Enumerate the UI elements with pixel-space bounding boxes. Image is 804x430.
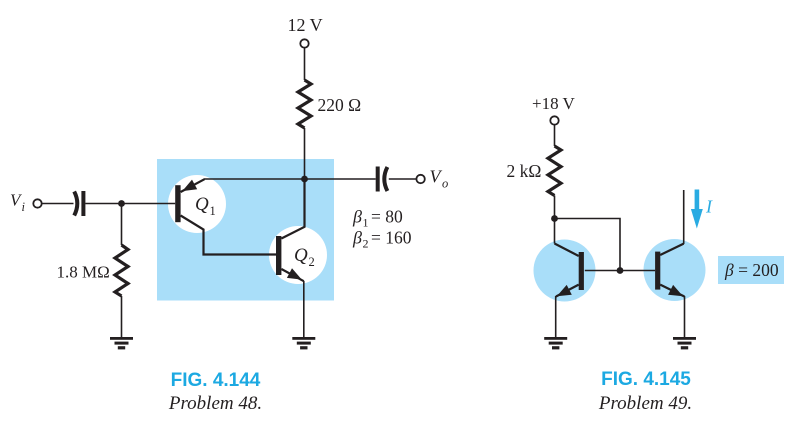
svg-text:2 kΩ: 2 kΩ bbox=[507, 161, 542, 181]
svg-text:Problem 48.: Problem 48. bbox=[168, 393, 262, 414]
svg-text:1: 1 bbox=[210, 204, 216, 218]
svg-text:β = 200: β = 200 bbox=[724, 260, 779, 280]
svg-text:1.8 MΩ: 1.8 MΩ bbox=[57, 263, 110, 282]
svg-text:o: o bbox=[442, 177, 448, 191]
svg-text:2: 2 bbox=[309, 255, 315, 269]
svg-text:= 80: = 80 bbox=[371, 207, 403, 227]
svg-text:β: β bbox=[352, 207, 362, 227]
svg-text:V: V bbox=[430, 167, 443, 187]
svg-text:1: 1 bbox=[363, 216, 369, 230]
svg-text:220 Ω: 220 Ω bbox=[318, 95, 362, 115]
svg-text:i: i bbox=[22, 200, 26, 214]
svg-text:2: 2 bbox=[363, 237, 369, 251]
svg-text:FIG. 4.145: FIG. 4.145 bbox=[601, 369, 691, 390]
svg-text:β: β bbox=[352, 228, 362, 248]
svg-text:Q: Q bbox=[294, 245, 308, 266]
svg-text:I: I bbox=[705, 197, 713, 217]
svg-text:FIG. 4.144: FIG. 4.144 bbox=[171, 370, 261, 391]
svg-text:= 160: = 160 bbox=[371, 228, 412, 248]
svg-text:12 V: 12 V bbox=[288, 15, 323, 35]
svg-text:+18 V: +18 V bbox=[532, 94, 576, 113]
svg-text:Q: Q bbox=[195, 194, 209, 215]
svg-text:Problem 49.: Problem 49. bbox=[598, 393, 692, 414]
